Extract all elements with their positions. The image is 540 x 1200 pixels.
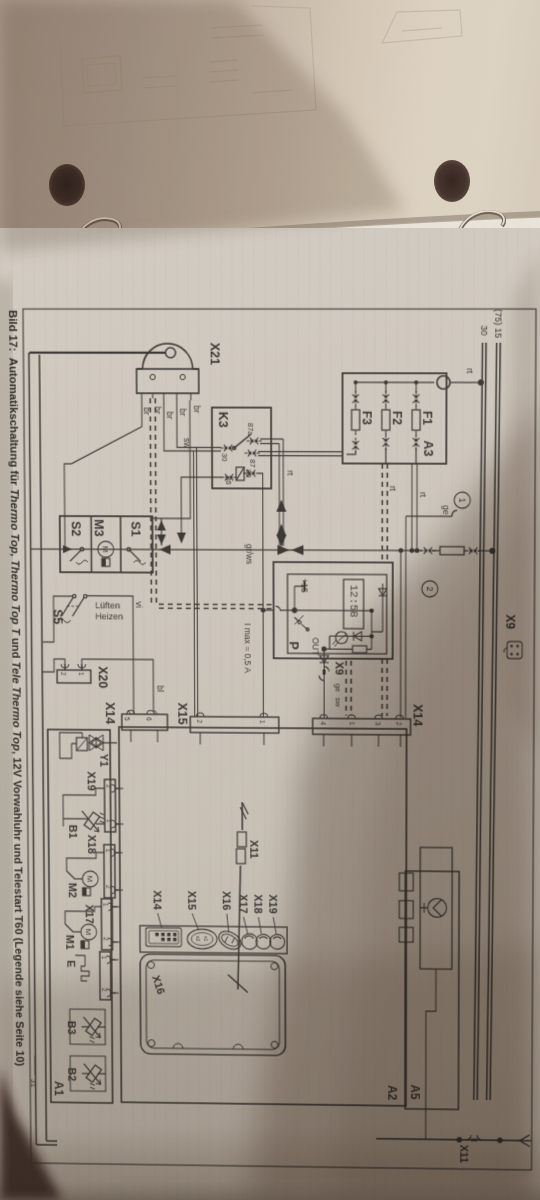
ring terminal on A3 xyxy=(437,376,450,389)
K3 pin 85 xyxy=(243,470,259,477)
A3 bus dots xyxy=(354,380,419,384)
I max label xyxy=(243,623,253,673)
svg-text:M2: M2 xyxy=(66,883,78,898)
circled 1 xyxy=(454,492,470,508)
M3 label xyxy=(92,519,107,536)
svg-text:87: 87 xyxy=(248,459,257,467)
svg-text:1: 1 xyxy=(348,722,355,726)
X11 label (right) xyxy=(457,1145,469,1164)
M2 label xyxy=(66,883,78,898)
rt label F2 wire xyxy=(388,486,398,492)
svg-text:ge: ge xyxy=(334,684,343,692)
X16 pin numbers xyxy=(100,956,107,992)
main diagonal hand shadow xyxy=(248,398,540,1200)
svg-text:br: br xyxy=(153,406,163,414)
X15 label xyxy=(175,703,190,725)
svg-text:M3: M3 xyxy=(92,519,107,536)
P label xyxy=(287,641,302,650)
wire stubs strips to A2 xyxy=(109,730,401,996)
svg-text:Y1: Y1 xyxy=(97,754,109,767)
svg-text:OUT: OUT xyxy=(311,637,321,656)
wire rail30 to A3 xyxy=(450,381,480,383)
X14 strip pin numbers xyxy=(123,717,152,721)
B1 wire loop xyxy=(63,788,105,827)
svg-text:1: 1 xyxy=(100,956,107,960)
A3 internal bus xyxy=(356,382,435,392)
svg-text:30: 30 xyxy=(479,325,489,335)
rail 30 xyxy=(474,343,486,1100)
svg-text:A3: A3 xyxy=(421,440,436,456)
svg-text:s1: s1 xyxy=(202,936,208,941)
A2 control unit box xyxy=(119,727,407,1106)
bottom bus wires xyxy=(29,353,57,1145)
A5 label xyxy=(408,1084,421,1099)
svg-text:X19: X19 xyxy=(85,771,97,790)
svg-text:1: 1 xyxy=(105,819,112,823)
svg-text:5: 5 xyxy=(123,717,130,721)
gr/ws pair wire to X15 pin2 xyxy=(194,447,198,716)
P internal dots xyxy=(369,608,373,638)
ge label xyxy=(441,505,451,515)
M2 wire loop xyxy=(66,852,104,879)
crease shadow above front page edge xyxy=(0,211,540,256)
svg-text:br: br xyxy=(192,405,202,413)
svg-text:ge: ge xyxy=(441,505,451,515)
br wire 1 (to S-box) xyxy=(64,400,143,547)
X19 strip xyxy=(104,779,115,831)
front page curled edge highlight xyxy=(0,217,540,282)
wire F1 to node (rt pair) xyxy=(412,464,417,551)
svg-text:P: P xyxy=(287,641,302,650)
svg-text:12:58: 12:58 xyxy=(347,584,359,617)
antenna end barb xyxy=(228,975,248,993)
bl label xyxy=(155,685,165,692)
svg-text:X20: X20 xyxy=(96,666,111,688)
X20 wires xyxy=(42,659,153,712)
svg-text:87a: 87a xyxy=(246,423,255,436)
A5 box xyxy=(405,871,459,1109)
X9 inline connector on OUT xyxy=(319,667,329,681)
inline fuse xyxy=(432,547,466,555)
X20 connector strip xyxy=(57,664,91,683)
svg-text:bl: bl xyxy=(155,685,165,692)
X16 physical connector xyxy=(216,927,245,953)
bottom darkening xyxy=(0,1125,540,1200)
Y1 label xyxy=(97,754,109,767)
F2 label xyxy=(390,411,404,425)
86 label xyxy=(224,476,233,484)
svg-text:B2: B2 xyxy=(65,1067,77,1081)
svg-text:3: 3 xyxy=(374,722,381,726)
svg-text:F3: F3 xyxy=(360,411,374,425)
+15 terminal entry xyxy=(275,581,304,611)
X15 physical connector xyxy=(187,929,217,949)
M2 motor (pump) xyxy=(82,871,98,896)
wire S5 bottom to bus xyxy=(43,596,73,642)
br labels xyxy=(142,405,202,419)
X15 strip (pins 2 1) xyxy=(190,717,279,734)
antenna tip barbs xyxy=(240,802,248,819)
junction dot rail30/A3 xyxy=(478,379,484,385)
vi label xyxy=(134,602,144,608)
rail 15 (75) xyxy=(487,343,501,1101)
svg-text:X19: X19 xyxy=(266,894,278,913)
X19 label xyxy=(85,771,97,790)
rt label 87a wire xyxy=(285,470,295,476)
S5 switch xyxy=(57,594,87,622)
inline fuse connector lower xyxy=(420,547,435,554)
svg-text:X14: X14 xyxy=(103,702,118,725)
X21 cable xyxy=(29,353,165,355)
junction dot 85 wire xyxy=(261,608,266,613)
X21 label xyxy=(208,343,223,366)
page frame xyxy=(23,309,536,1170)
svg-text:M: M xyxy=(84,929,93,936)
svg-text:rt: rt xyxy=(285,470,295,476)
svg-text:B1: B1 xyxy=(66,825,78,839)
fuse F2 xyxy=(382,391,390,464)
87a label xyxy=(246,423,255,436)
clock display xyxy=(344,579,364,628)
wire 85 to X15 pin1 xyxy=(258,473,274,717)
K3 relay box xyxy=(212,408,271,489)
rail 30 label xyxy=(479,325,489,335)
wire to main line with arrows xyxy=(160,518,162,545)
svg-text:X9: X9 xyxy=(333,662,345,676)
junction dots on X11 feed xyxy=(457,1137,503,1143)
svg-text:(75) 15: (75) 15 xyxy=(493,309,503,338)
B2 wire box xyxy=(70,1056,106,1091)
X17 physical connector xyxy=(242,934,258,950)
X18 strip xyxy=(104,845,115,898)
X18 pins xyxy=(115,853,120,890)
br wire 3 xyxy=(164,400,221,451)
B1 temperature sensor xyxy=(80,811,105,832)
P diode branch xyxy=(330,632,372,641)
wire A5 to X11 line xyxy=(426,969,436,1140)
front page hole right xyxy=(422,233,462,260)
antenna Y tip xyxy=(518,1135,532,1147)
X21 dashed pair xyxy=(150,398,271,608)
A1 label xyxy=(52,1081,65,1096)
arrow on 86 wire xyxy=(177,533,186,544)
sw label xyxy=(182,438,192,449)
A3 fuse box xyxy=(343,373,447,464)
X9 label at P xyxy=(333,662,345,676)
M1 wire loop xyxy=(65,906,102,932)
back page punch hole right xyxy=(434,160,470,202)
svg-text:Lüften: Lüften xyxy=(95,601,120,611)
junction dot +15 xyxy=(292,608,298,614)
E label xyxy=(65,960,77,968)
Y1 wire loop xyxy=(60,733,83,759)
svg-text:X15: X15 xyxy=(185,891,197,910)
X14 strip (pins 5 6) xyxy=(122,710,168,730)
M1 motor (fan) xyxy=(81,924,97,949)
svg-text:2: 2 xyxy=(102,937,109,941)
X20 pin numbers xyxy=(59,672,84,676)
K3 pin 86 xyxy=(222,474,237,481)
svg-text:X15: X15 xyxy=(175,703,190,725)
svg-text:M: M xyxy=(85,875,94,882)
right top slight shading xyxy=(508,250,540,760)
X16 pins xyxy=(111,960,116,993)
S1 label xyxy=(129,521,144,536)
wire label rt xyxy=(465,368,475,374)
left page edge shading xyxy=(0,280,10,1140)
M3 motor xyxy=(98,541,114,566)
P resistor branch xyxy=(324,646,372,653)
X14 strip right (pins 4 1 3 2) xyxy=(313,718,411,735)
svg-text:4: 4 xyxy=(319,721,326,725)
svg-text:rt: rt xyxy=(465,368,475,374)
junction dot rail15 xyxy=(489,548,495,554)
ECU screws xyxy=(148,962,278,1050)
svg-text:1: 1 xyxy=(101,903,108,907)
P bottom join xyxy=(329,636,331,649)
svg-text:31: 31 xyxy=(29,1079,38,1088)
front page hole left xyxy=(34,242,77,270)
K3 contact arm xyxy=(232,435,250,450)
svg-text:6: 6 xyxy=(145,717,152,721)
wire 87a to main line xyxy=(260,439,283,546)
X14 physical connector xyxy=(146,928,182,947)
X19 pin numbers xyxy=(105,784,112,822)
S1 switch xyxy=(127,548,146,565)
svg-text:X11: X11 xyxy=(457,1145,469,1164)
svg-text:Heizen: Heizen xyxy=(95,612,123,622)
gr/ws label xyxy=(244,544,254,565)
ECU connector band xyxy=(140,926,287,954)
B2 label xyxy=(65,1067,77,1081)
rt label F1 wire xyxy=(418,492,428,498)
strip pin hooks xyxy=(61,664,404,1000)
svg-text:X21: X21 xyxy=(208,343,223,366)
X17 strip xyxy=(101,899,112,950)
P timer box xyxy=(273,562,392,659)
Lüften Heizen labels (rotated) xyxy=(95,601,123,622)
X21 pins xyxy=(142,393,191,400)
X11 inline connector xyxy=(236,832,246,864)
svg-text:1: 1 xyxy=(77,672,84,676)
wire S5 up to X14 pin5 xyxy=(87,596,133,714)
A2 label xyxy=(385,1085,398,1100)
ge terminal hook xyxy=(406,510,457,516)
K3 coil xyxy=(236,467,244,480)
arrows at S box line xyxy=(63,544,171,554)
svg-text:2: 2 xyxy=(395,722,402,726)
top band shadow (left) xyxy=(0,0,405,252)
B3 label xyxy=(65,1021,77,1035)
svg-text:X9: X9 xyxy=(503,614,517,629)
svg-text:A2: A2 xyxy=(385,1085,398,1100)
arrows on 87a wire xyxy=(276,500,286,547)
A5 antenna coupler xyxy=(420,847,452,969)
OUT wire xyxy=(323,649,325,717)
arrows on branch wire xyxy=(157,520,166,544)
svg-text:X16: X16 xyxy=(149,974,166,996)
svg-text:F2: F2 xyxy=(390,411,404,425)
junction dot main/141 xyxy=(398,548,403,553)
S2 label xyxy=(69,521,84,536)
rail 15 label xyxy=(493,309,503,338)
fuse F1 xyxy=(412,391,420,464)
X14 right pin numbers xyxy=(319,721,402,725)
P LED xyxy=(333,632,348,647)
svg-text:2: 2 xyxy=(59,672,66,676)
S box xyxy=(60,516,153,573)
arrows on main line xyxy=(277,545,303,555)
wire ge to X14 pin2 xyxy=(401,516,406,718)
svg-text:B3: B3 xyxy=(65,1021,77,1035)
X11 feed line at right xyxy=(376,1139,520,1141)
main feed line from rail15 xyxy=(31,549,493,551)
svg-text:br: br xyxy=(178,408,188,416)
svg-text:A1: A1 xyxy=(52,1081,65,1096)
ghost schematic showing through back page xyxy=(0,0,540,240)
svg-text:rt: rt xyxy=(418,492,428,498)
B3 temperature sensor xyxy=(82,1017,106,1043)
svg-text:X14: X14 xyxy=(411,704,426,727)
OUT junction dot xyxy=(321,646,326,651)
X17 label xyxy=(83,904,95,923)
svg-text:vi: vi xyxy=(134,602,144,608)
svg-text:X14: X14 xyxy=(151,890,163,910)
X11 label xyxy=(247,840,259,859)
B2 temperature sensor xyxy=(82,1064,106,1090)
svg-text:I max = 0,5 A: I max = 0,5 A xyxy=(243,623,253,673)
svg-text:1: 1 xyxy=(457,498,467,503)
svg-text:2: 2 xyxy=(424,586,434,591)
svg-text:s2: s2 xyxy=(194,936,200,941)
svg-text:F1: F1 xyxy=(420,411,434,425)
X18 pin numbers xyxy=(104,849,111,889)
X19 physical connector xyxy=(270,934,285,949)
K3 pin 87 xyxy=(245,450,260,457)
ECU body rounded box xyxy=(140,954,285,1055)
K3 pin 30 xyxy=(221,445,236,452)
F3 label xyxy=(360,411,374,425)
page number 31 xyxy=(29,1055,38,1087)
svg-text:S1: S1 xyxy=(129,521,144,536)
X16 label xyxy=(149,974,166,996)
svg-text:X16: X16 xyxy=(220,891,232,910)
svg-text:2: 2 xyxy=(100,988,107,992)
svg-text:K3: K3 xyxy=(216,412,231,428)
svg-text:X11: X11 xyxy=(247,840,259,859)
X9 label xyxy=(503,614,517,629)
+15 label xyxy=(300,578,310,593)
svg-text:X17: X17 xyxy=(83,904,95,923)
OUT diode xyxy=(320,656,329,663)
svg-text:S2: S2 xyxy=(69,521,84,536)
fuse F3 xyxy=(347,391,360,454)
svg-text:M: M xyxy=(101,546,110,553)
circled 2 xyxy=(422,581,438,597)
svg-text:A5: A5 xyxy=(408,1084,421,1099)
svg-text:br: br xyxy=(165,411,175,419)
svg-text:S5: S5 xyxy=(51,609,66,624)
X14 label right xyxy=(411,704,426,727)
X18 label xyxy=(85,835,97,854)
wire K3 86 xyxy=(181,477,222,533)
P switch xyxy=(295,615,310,631)
binder ring right xyxy=(447,211,504,252)
svg-text:2: 2 xyxy=(104,885,111,889)
X20 label xyxy=(96,666,111,688)
P diode top xyxy=(379,589,387,596)
OUT label xyxy=(311,637,321,656)
P internal vertical to top bus xyxy=(295,583,383,649)
M1 label xyxy=(63,935,75,950)
wire F2 dashed (Telestart) xyxy=(346,463,387,715)
back page punch hole left xyxy=(49,164,85,206)
svg-text:E: E xyxy=(65,960,77,968)
svg-text:X18: X18 xyxy=(85,835,97,854)
X21 connector body xyxy=(136,344,198,394)
inline fuse connector upper xyxy=(466,547,481,554)
br wire 2 xyxy=(177,400,221,447)
svg-text:2: 2 xyxy=(195,720,202,724)
svg-text:M1: M1 xyxy=(63,935,75,950)
X17 pins xyxy=(112,907,117,942)
svg-text:1: 1 xyxy=(258,720,265,724)
85 label xyxy=(244,469,253,477)
svg-text:1: 1 xyxy=(104,849,111,853)
87 label xyxy=(248,459,257,467)
K3 pin 87a xyxy=(247,438,262,445)
X17 pin numbers xyxy=(101,903,108,941)
K3 label xyxy=(216,412,231,428)
X19 pins xyxy=(115,788,120,824)
svg-text:30: 30 xyxy=(220,453,229,461)
X18 physical connector xyxy=(256,934,271,949)
svg-text:X17: X17 xyxy=(237,894,249,913)
B1 label xyxy=(66,825,78,839)
30 label xyxy=(220,453,229,461)
svg-text:X18: X18 xyxy=(252,894,264,913)
ECU connector labels xyxy=(151,890,278,913)
A3 label xyxy=(421,440,436,456)
svg-text:sw: sw xyxy=(334,698,343,708)
S5 label xyxy=(51,609,66,624)
X15 strip pin numbers xyxy=(195,720,264,724)
svg-text:rt: rt xyxy=(388,486,398,492)
F1 label xyxy=(420,411,434,425)
binder ring left xyxy=(62,218,120,262)
A5/A2 link pins xyxy=(399,873,413,942)
svg-text:Bild 17: Automatikschaltung f: Bild 17: Automatikschaltung für Thermo T… xyxy=(6,310,26,1066)
X16 strip xyxy=(100,952,111,1000)
A1 heater box xyxy=(48,730,113,1104)
Y1 solenoid valve xyxy=(71,733,117,751)
S2 switch xyxy=(70,547,88,564)
E glow plug xyxy=(75,955,89,981)
node dots F1/main xyxy=(409,548,419,553)
svg-text:2: 2 xyxy=(105,784,112,788)
B3 wire box xyxy=(70,1009,106,1045)
br wire 4 xyxy=(152,400,191,518)
antenna wire xyxy=(237,802,243,989)
X14 label left xyxy=(103,702,118,725)
ge sw labels xyxy=(334,684,343,708)
wire 87 to F3 (pair) xyxy=(258,452,342,456)
X11 inline connector hooks xyxy=(466,1135,482,1141)
X9 connector symbol xyxy=(504,642,522,659)
svg-text:gr/ws: gr/ws xyxy=(244,544,254,565)
caption Bild 17 xyxy=(6,310,26,1066)
label leaders xyxy=(158,913,277,934)
